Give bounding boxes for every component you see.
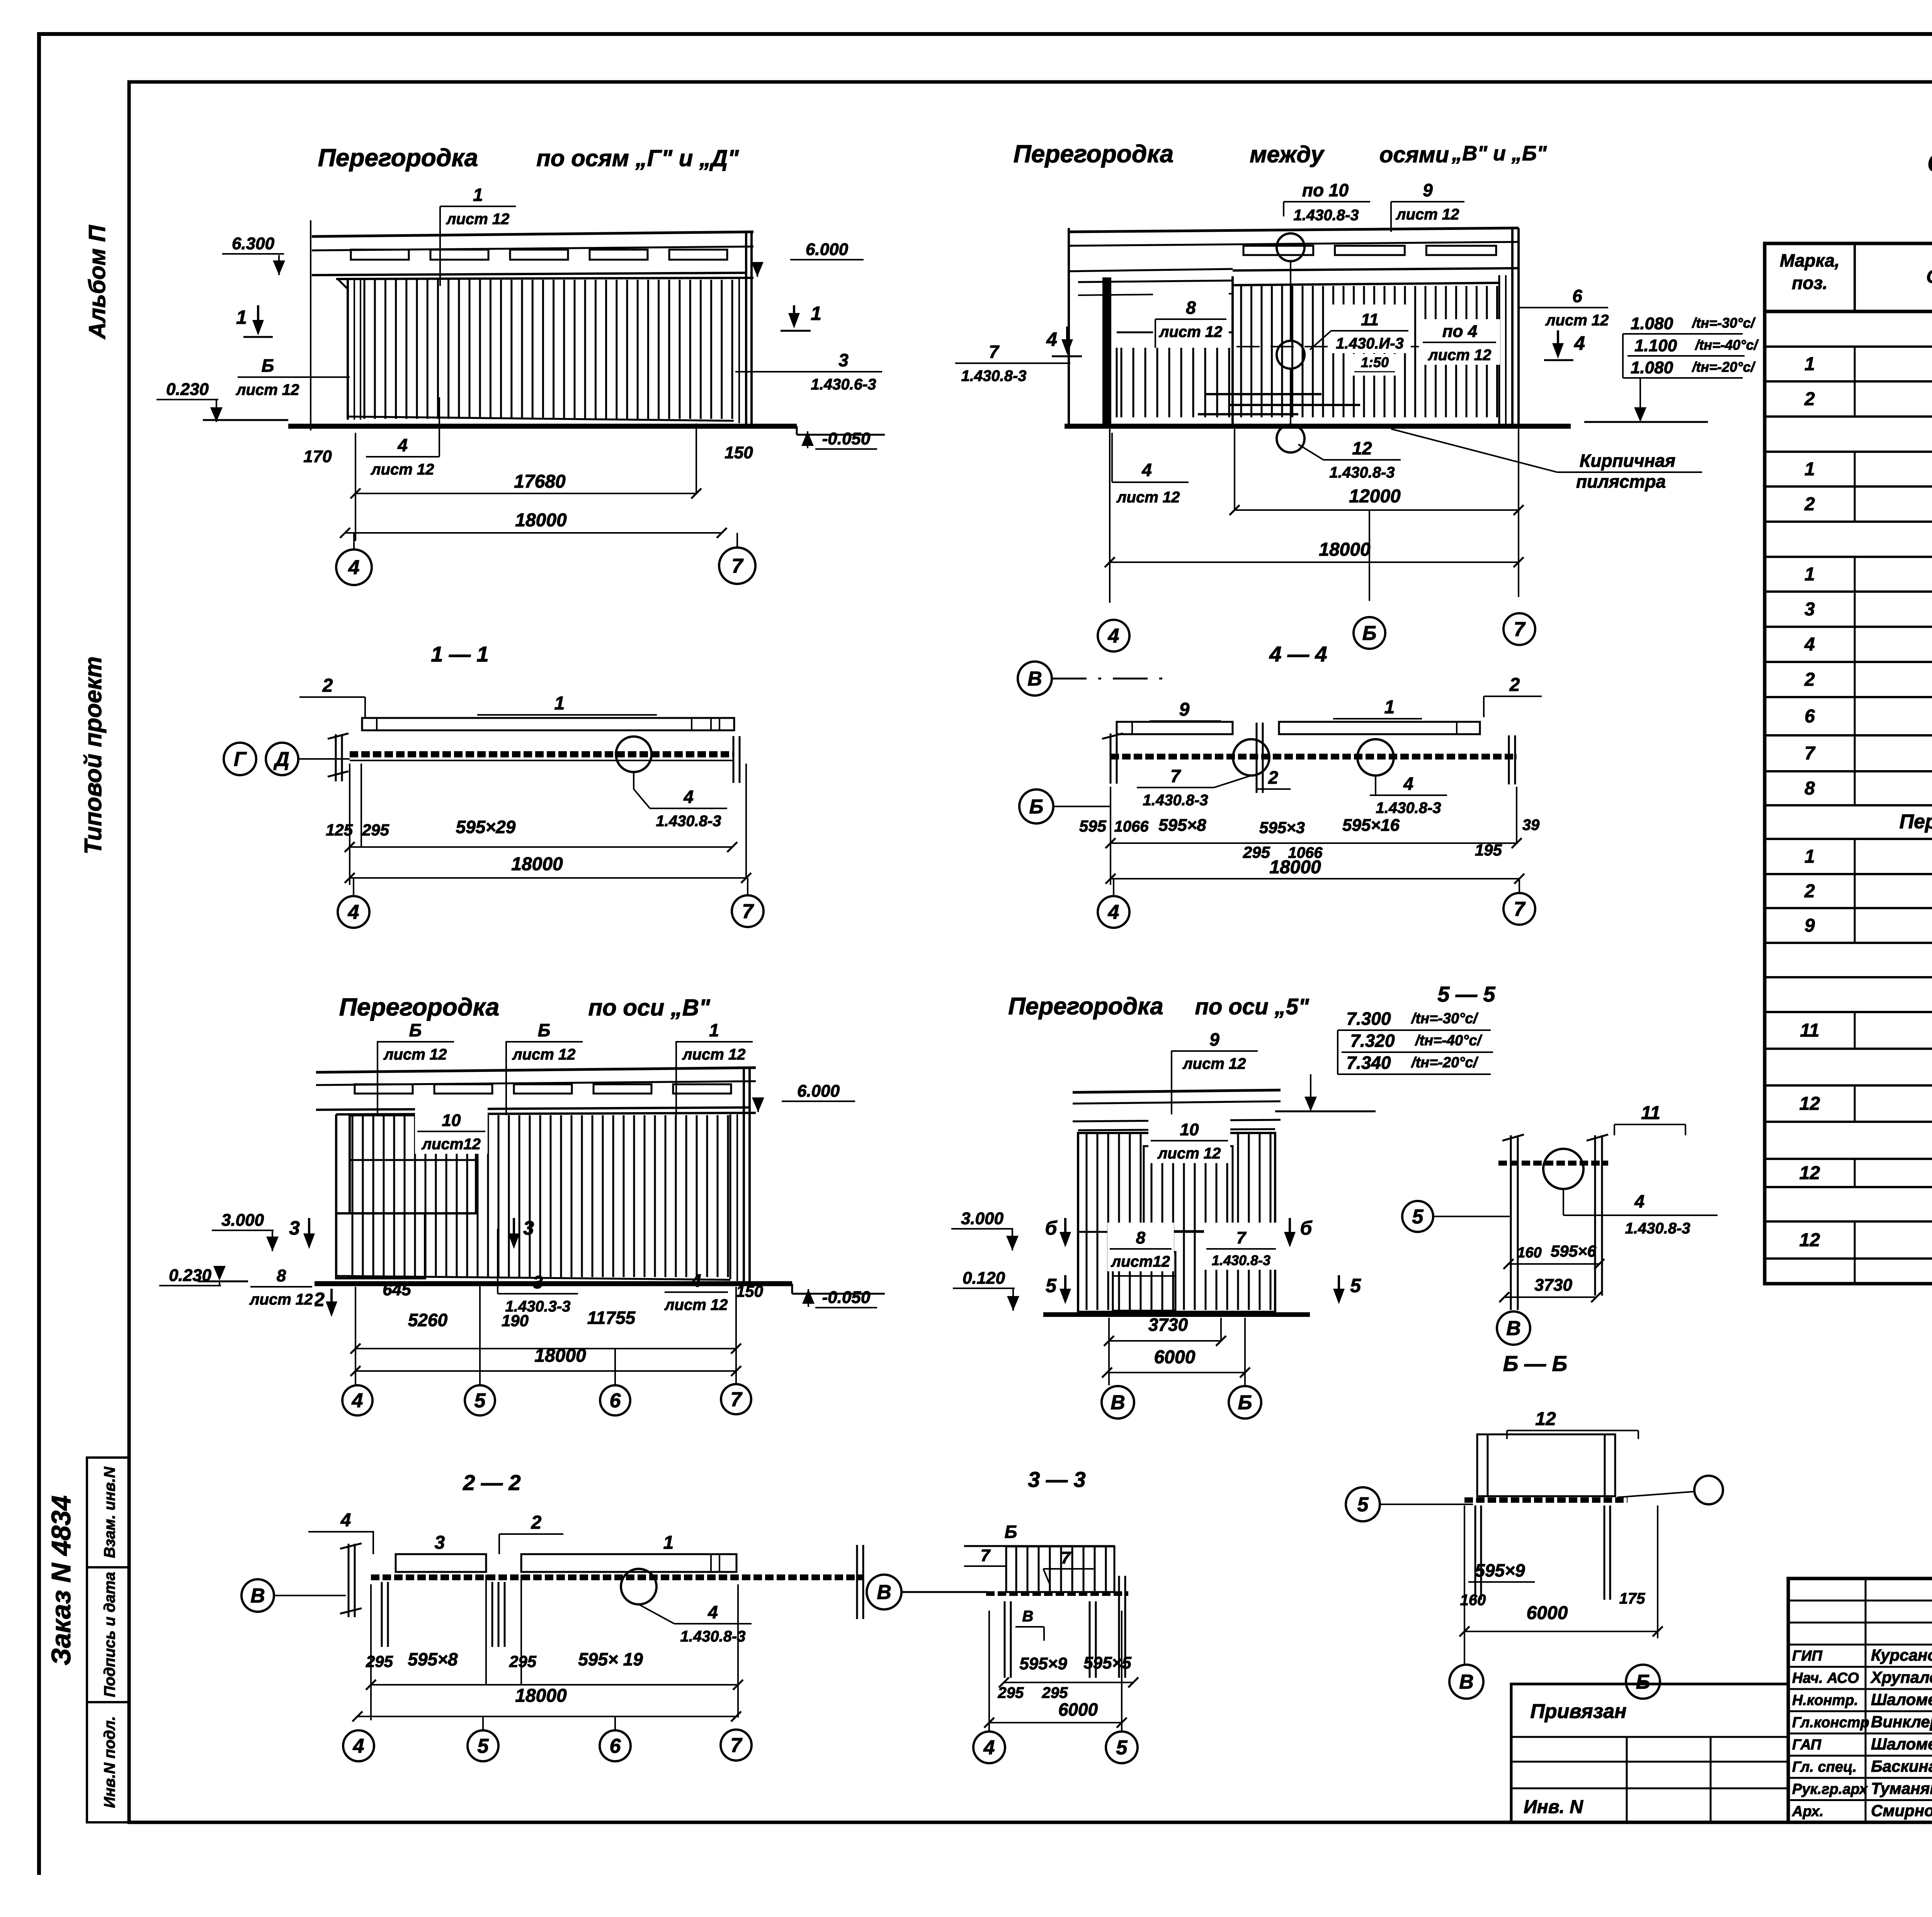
svg-text:12: 12 (1352, 438, 1372, 458)
svg-text:1.430.8-3: 1.430.8-3 (680, 1628, 745, 1645)
svg-text:595×16: 595×16 (1342, 816, 1400, 835)
svg-text:18000: 18000 (1269, 857, 1321, 878)
svg-text:1: 1 (236, 306, 247, 328)
D3 left end cap (335, 734, 337, 781)
svg-text:295: 295 (1042, 1684, 1068, 1701)
svg-text:6000: 6000 (1154, 1347, 1196, 1368)
svg-text:Спецификация: Спецификация (1927, 148, 1932, 178)
svg-text:8: 8 (1186, 298, 1196, 318)
svg-text:лист 12: лист 12 (446, 211, 510, 228)
D7 callout circle (621, 1569, 656, 1604)
svg-text:595×6: 595×6 (1551, 1242, 1597, 1260)
svg-text:595×5: 595×5 (1083, 1653, 1131, 1672)
D6 inner rect 8 (1113, 1252, 1175, 1311)
svg-text:0.230: 0.230 (169, 1266, 212, 1285)
svg-text:Туманян: Туманян (1871, 1779, 1932, 1797)
D5 panel bottom (336, 1276, 730, 1280)
svg-text:1.430.6-3: 1.430.6-3 (811, 376, 876, 393)
D7 panel 1 (521, 1554, 736, 1572)
svg-text:2: 2 (1804, 389, 1815, 410)
svg-text:Альбом П: Альбом П (84, 225, 110, 340)
D5 axis circles 4 5 6 7 (342, 1385, 372, 1415)
svg-text:7: 7 (742, 900, 754, 923)
svg-text:Арх.: Арх. (1792, 1803, 1823, 1820)
svg-text:Б: Б (1238, 1391, 1252, 1414)
svg-text:2: 2 (322, 675, 333, 696)
svg-text:7: 7 (1514, 898, 1526, 920)
svg-text:7: 7 (989, 342, 1000, 362)
svg-text:лист 12: лист 12 (1157, 1145, 1221, 1162)
D6 inner rect 10 (1144, 1146, 1233, 1231)
svg-text:3: 3 (838, 350, 849, 370)
svg-text:9: 9 (1209, 1029, 1219, 1050)
svg-text:6.000: 6.000 (797, 1082, 840, 1101)
D1 ground left extension (203, 419, 288, 421)
D1 ground line (288, 424, 797, 429)
D2 ground speckle (1206, 393, 1321, 395)
svg-text:Подпись и дата: Подпись и дата (101, 1572, 118, 1697)
svg-text:лист 12: лист 12 (1428, 347, 1492, 364)
svg-text:3730: 3730 (1534, 1276, 1572, 1294)
svg-text:Б: Б (1005, 1522, 1017, 1542)
svg-text:1.430.8-3: 1.430.8-3 (1293, 207, 1359, 224)
outer border top (37, 32, 1932, 36)
D4 wall band (1111, 754, 1517, 760)
svg-text:лист 12: лист 12 (371, 461, 434, 478)
svg-text:7: 7 (1170, 766, 1181, 786)
svg-text:595×9: 595×9 (1475, 1560, 1525, 1580)
svg-text:1.430.8-3: 1.430.8-3 (1625, 1220, 1690, 1237)
svg-text:1: 1 (1804, 564, 1815, 585)
D7 left end cap (348, 1544, 350, 1617)
svg-text:595×8: 595×8 (408, 1649, 458, 1669)
title block outline (1788, 1579, 1932, 1822)
D3 panel bar (362, 718, 734, 730)
svg-text:5: 5 (1350, 1275, 1361, 1296)
5-5 wall columns (1510, 1135, 1512, 1310)
D2 dark column (1102, 277, 1111, 424)
D8 below columns (1004, 1601, 1006, 1678)
svg-text:4: 4 (348, 901, 359, 924)
svg-text:/tн=-20°с/: /tн=-20°с/ (1691, 359, 1756, 375)
svg-text:11: 11 (1800, 1021, 1820, 1041)
svg-text:5: 5 (1412, 1206, 1424, 1228)
svg-text:Д: Д (273, 748, 289, 771)
svg-text:6: 6 (610, 1390, 621, 1412)
svg-text:5: 5 (1357, 1493, 1369, 1516)
svg-text:1.080: 1.080 (1631, 358, 1673, 377)
svg-text:3 — 3: 3 — 3 (1028, 1467, 1085, 1492)
svg-text:/tн=-40°с/: /tн=-40°с/ (1415, 1032, 1483, 1049)
D2 axis circle 4 (1098, 620, 1129, 651)
D4 right end cap (1508, 735, 1510, 784)
D5 panel hatch (352, 1115, 354, 1277)
svg-text:В: В (1459, 1671, 1474, 1693)
D6 leader 8 / лист12 (1107, 1223, 1174, 1271)
svg-text:1.100: 1.100 (1634, 336, 1677, 355)
svg-text:Перегородка между осями„В"и„Б: Перегородка между осями„В"и„Б"/tн=-20°;-… (1900, 811, 1932, 833)
svg-text:Обозначение: Обозначение (1926, 267, 1932, 287)
svg-text:12: 12 (1799, 1094, 1820, 1114)
svg-text:1: 1 (1804, 847, 1815, 867)
svg-text:4: 4 (683, 787, 694, 807)
D2 axis circle 7 (1503, 613, 1535, 645)
svg-text:0.230: 0.230 (166, 380, 209, 399)
svg-text:Перегородка: Перегородка (339, 993, 500, 1021)
D3 axis circle 4 (353, 878, 354, 896)
svg-text:-0.050: -0.050 (822, 429, 871, 448)
svg-text:1.080: 1.080 (1631, 314, 1673, 333)
svg-text:7: 7 (1804, 743, 1816, 764)
svg-text:по 4: по 4 (1442, 322, 1477, 341)
svg-text:лист12: лист12 (1111, 1253, 1170, 1270)
D1 panel top (336, 278, 753, 279)
svg-text:осями: осями (1379, 142, 1449, 167)
svg-text:12: 12 (1535, 1409, 1556, 1429)
svg-text:Гл. спец.: Гл. спец. (1792, 1759, 1857, 1775)
D2 mid dashed line (1236, 346, 1498, 347)
svg-text:5: 5 (1116, 1737, 1128, 1759)
svg-text:В: В (1022, 1608, 1034, 1625)
svg-text:18000: 18000 (511, 854, 563, 874)
D1 section mark 1 left (257, 305, 259, 324)
D1 roof band (312, 232, 753, 236)
D5 right columns (730, 1114, 731, 1279)
svg-text:4: 4 (691, 1271, 701, 1291)
svg-text:1: 1 (709, 1020, 719, 1040)
D4 left end cap (1110, 733, 1112, 784)
D5 left edge (335, 1114, 337, 1278)
svg-text:7: 7 (981, 1546, 991, 1565)
svg-text:лист 12: лист 12 (1396, 206, 1459, 223)
svg-text:295: 295 (362, 821, 389, 839)
svg-text:3.000: 3.000 (221, 1211, 264, 1230)
svg-text:1: 1 (473, 185, 483, 205)
svg-text:8: 8 (1804, 778, 1815, 799)
privyazan table (1511, 1684, 1788, 1822)
svg-text:1.430.8-3: 1.430.8-3 (1376, 799, 1441, 816)
title block left columns (1865, 1579, 1867, 1822)
svg-text:/tн=-30°с/: /tн=-30°с/ (1411, 1010, 1479, 1027)
D4 panel 1 (1279, 722, 1480, 734)
D7 below columns (381, 1582, 383, 1647)
svg-text:1: 1 (663, 1533, 674, 1553)
svg-text:8: 8 (277, 1266, 286, 1285)
svg-text:175: 175 (1619, 1590, 1645, 1607)
D3 axis circle 7 (747, 878, 748, 896)
table rows (1765, 345, 1932, 348)
svg-text:295: 295 (1243, 843, 1270, 861)
svg-text:6000: 6000 (1527, 1603, 1568, 1623)
D5 leader 8 / лист 12 (248, 1260, 315, 1309)
svg-text:1:50: 1:50 (1361, 354, 1389, 370)
svg-text:Рук.гр.арх: Рук.гр.арх (1792, 1781, 1868, 1797)
svg-text:В: В (1027, 668, 1042, 690)
svg-text:2: 2 (1804, 494, 1815, 515)
svg-text:4: 4 (1046, 328, 1057, 350)
svg-text:645: 645 (383, 1280, 411, 1299)
svg-text:Нач. АСО: Нач. АСО (1792, 1670, 1859, 1686)
title block name rows (1788, 1666, 1932, 1668)
svg-text:Перегородка: Перегородка (1008, 993, 1163, 1020)
svg-text:7: 7 (1061, 1548, 1071, 1567)
D4 axis circle 4 (1113, 879, 1114, 896)
svg-text:Взам. инв.N: Взам. инв.N (101, 1466, 118, 1558)
D7 axis circles 4 5 6 7 (343, 1730, 374, 1761)
svg-text:„В" и „Б": „В" и „Б" (1451, 142, 1547, 165)
svg-text:9: 9 (1179, 699, 1190, 720)
svg-text:б: б (1300, 1217, 1313, 1239)
D5 ground left extension (198, 1281, 286, 1283)
svg-text:39: 39 (1522, 816, 1540, 833)
svg-text:190: 190 (502, 1311, 529, 1330)
svg-text:17680: 17680 (514, 471, 566, 492)
D8 axis circle В (867, 1575, 901, 1609)
D8 panel (1006, 1546, 1114, 1592)
svg-text:лист 12: лист 12 (1116, 489, 1180, 506)
Б-Б wall band (1464, 1497, 1628, 1503)
svg-text:Марка,: Марка, (1780, 250, 1840, 270)
svg-text:4: 4 (353, 1735, 364, 1757)
svg-text:7: 7 (731, 1388, 743, 1411)
D4 panel 9 (1117, 722, 1233, 734)
svg-text:150: 150 (724, 443, 753, 462)
svg-text:лист12: лист12 (421, 1136, 481, 1153)
svg-text:Перегородка: Перегородка (1014, 140, 1174, 168)
svg-text:лист 12: лист 12 (682, 1046, 746, 1063)
D3 wall band (350, 751, 734, 757)
svg-text:1.430.8-3: 1.430.8-3 (1329, 464, 1395, 481)
D1 axis circle 7 (736, 533, 738, 548)
svg-text:по оси „5": по оси „5" (1195, 994, 1310, 1019)
svg-text:между: между (1250, 141, 1325, 167)
D3 axis circles Г Д (224, 743, 256, 775)
D8 axis circles 4 5 (973, 1732, 1005, 1763)
5-5 callout circle (1543, 1149, 1583, 1189)
svg-text:5260: 5260 (408, 1310, 448, 1330)
D2 scale 1:50 (1350, 354, 1399, 376)
svg-text:3: 3 (533, 1272, 543, 1292)
D1 right column (738, 279, 740, 423)
svg-text:Перегородка: Перегородка (318, 144, 478, 172)
svg-text:0.120: 0.120 (963, 1269, 1005, 1288)
svg-text:1: 1 (811, 303, 821, 324)
svg-text:4: 4 (348, 556, 360, 579)
D3 right end cap (733, 736, 735, 783)
svg-text:4: 4 (1403, 774, 1413, 794)
svg-text:5: 5 (1046, 1275, 1057, 1296)
svg-text:Хрупало: Хрупало (1870, 1668, 1932, 1686)
svg-text:7: 7 (1236, 1228, 1247, 1247)
svg-text:12: 12 (1799, 1230, 1820, 1250)
svg-text:1.430.8-3: 1.430.8-3 (1143, 792, 1208, 809)
svg-text:2: 2 (1509, 675, 1520, 695)
title block left thin rows (1788, 1600, 1932, 1602)
svg-text:Б: Б (409, 1020, 422, 1040)
svg-text:Б: Б (262, 356, 274, 376)
svg-text:Баскина: Баскина (1871, 1757, 1932, 1775)
svg-text:1: 1 (554, 693, 565, 714)
svg-text:6: 6 (1572, 286, 1582, 306)
svg-text:В: В (1111, 1391, 1125, 1414)
svg-text:ГИП: ГИП (1792, 1648, 1823, 1664)
D2 right panel (1231, 276, 1234, 424)
svg-text:Кирпичная: Кирпичная (1580, 451, 1675, 471)
table outline (1765, 243, 1932, 1284)
D7 right end cap (856, 1545, 858, 1619)
svg-text:5 — 5: 5 — 5 (1437, 982, 1495, 1006)
svg-text:595×8: 595×8 (1158, 816, 1206, 835)
svg-text:6: 6 (610, 1735, 621, 1757)
svg-text:6: 6 (1804, 706, 1815, 727)
D6 leader 7 / 1.430.8-3 (1204, 1223, 1278, 1270)
D1 panel bottom (348, 417, 734, 421)
svg-text:лист 12: лист 12 (236, 381, 299, 398)
svg-text:лист 12: лист 12 (383, 1046, 447, 1063)
D5 panel top (336, 1113, 756, 1114)
D4 callout circles (1233, 739, 1269, 776)
5-5 axis circle В below (1497, 1311, 1530, 1345)
D4 axis circle Б (1019, 789, 1053, 823)
svg-text:11: 11 (1361, 310, 1379, 329)
D5 section mark 3 right (513, 1218, 515, 1237)
svg-text:4: 4 (340, 1510, 351, 1531)
svg-text:Гл.констр: Гл.констр (1792, 1715, 1869, 1731)
svg-text:6.300: 6.300 (232, 234, 275, 253)
svg-text:18000: 18000 (515, 1686, 567, 1706)
svg-text:160: 160 (1517, 1245, 1541, 1261)
svg-text:1.430.8-3: 1.430.8-3 (656, 813, 721, 830)
outer border left (37, 32, 41, 1875)
svg-text:595× 19: 595× 19 (578, 1649, 643, 1669)
svg-text:150: 150 (736, 1282, 763, 1300)
svg-text:лист 12: лист 12 (512, 1046, 576, 1063)
svg-text:595: 595 (1079, 817, 1107, 835)
D6 ground line (1043, 1312, 1310, 1317)
svg-text:1066: 1066 (1114, 818, 1149, 835)
D5 roof band (316, 1068, 756, 1072)
svg-text:В: В (250, 1585, 265, 1607)
svg-text:3.000: 3.000 (961, 1209, 1004, 1228)
5-5 axis circle 5 (1402, 1201, 1433, 1232)
svg-text:Б: Б (1636, 1671, 1650, 1693)
svg-text:Винклер: Винклер (1871, 1713, 1932, 1731)
svg-text:2: 2 (1804, 881, 1815, 902)
svg-text:1: 1 (1384, 697, 1395, 718)
D2 right edge columns (1498, 275, 1500, 424)
svg-text:11: 11 (1641, 1103, 1660, 1123)
svg-text:5: 5 (478, 1735, 489, 1757)
svg-text:лист 12: лист 12 (1182, 1055, 1246, 1072)
Б-Б callout circle (1694, 1476, 1723, 1504)
svg-text:2: 2 (313, 1289, 325, 1310)
svg-text:Б — Б: Б — Б (1503, 1351, 1567, 1376)
svg-text:170: 170 (303, 447, 332, 466)
D2 left sub-panel hatch (1117, 332, 1233, 333)
svg-text:Типовой проект: Типовой проект (80, 657, 107, 855)
svg-text:по осям „Г" и „Д": по осям „Г" и „Д" (536, 145, 739, 171)
svg-text:Б: Б (538, 1020, 551, 1040)
svg-text:лист 12: лист 12 (249, 1291, 313, 1308)
D2 callout circles (1277, 233, 1304, 261)
svg-text:по 10: по 10 (1302, 180, 1349, 200)
D1 axis circle 4 (353, 533, 355, 549)
svg-text:2: 2 (531, 1512, 542, 1533)
svg-text:11755: 11755 (587, 1308, 636, 1328)
svg-text:4: 4 (352, 1390, 363, 1412)
svg-text:8: 8 (1136, 1228, 1146, 1247)
D7 panel 3 (396, 1554, 486, 1572)
svg-text:Привязан: Привязан (1530, 1700, 1626, 1723)
svg-text:18000: 18000 (1319, 539, 1371, 560)
D2 leader по 4 / лист 12 (1419, 319, 1500, 365)
svg-text:В: В (1506, 1317, 1521, 1340)
D5 ground line (286, 1281, 792, 1286)
svg-text:-0.050: -0.050 (822, 1288, 871, 1307)
svg-text:Шаломеев: Шаломеев (1871, 1735, 1932, 1753)
D5 leader 10 / лист 12 (415, 1105, 488, 1154)
svg-text:Шаломеев: Шаломеев (1871, 1690, 1932, 1708)
svg-text:4: 4 (1574, 332, 1585, 354)
D7 wall band (371, 1575, 862, 1580)
svg-text:Б: Б (1362, 622, 1377, 645)
svg-text:12000: 12000 (1349, 486, 1401, 507)
D4 axis circle 7 (1519, 879, 1520, 893)
D2 leader 8 / лист 12 (1153, 292, 1229, 342)
svg-text:Инв.N подл.: Инв.N подл. (101, 1716, 118, 1808)
svg-text:поз.: поз. (1792, 273, 1827, 293)
svg-text:295: 295 (509, 1652, 537, 1670)
D6 roof band (1073, 1090, 1281, 1092)
svg-text:/tн=-40°с/: /tн=-40°с/ (1694, 337, 1759, 353)
Б-Б panel (1477, 1434, 1615, 1496)
svg-text:6000: 6000 (1058, 1699, 1098, 1720)
svg-text:9: 9 (1804, 915, 1815, 936)
svg-text:4: 4 (1108, 625, 1119, 647)
svg-text:2 — 2: 2 — 2 (463, 1470, 520, 1495)
D1 left extension line (310, 220, 311, 430)
D2 roof band (1069, 228, 1519, 232)
D5 section mark 2 left (330, 1289, 333, 1305)
svg-text:4: 4 (397, 435, 408, 455)
svg-text:4 — 4: 4 — 4 (1269, 642, 1327, 666)
svg-text:3: 3 (523, 1217, 534, 1239)
svg-text:4: 4 (1634, 1191, 1645, 1211)
svg-text:3: 3 (289, 1217, 300, 1239)
svg-text:1: 1 (1804, 354, 1815, 374)
svg-text:/tн=-30°с/: /tн=-30°с/ (1691, 315, 1756, 331)
svg-text:295: 295 (366, 1652, 393, 1670)
svg-text:12: 12 (1799, 1163, 1820, 1184)
svg-text:7.340: 7.340 (1346, 1053, 1391, 1073)
svg-text:Смирнова: Смирнова (1871, 1801, 1932, 1820)
svg-text:4: 4 (983, 1737, 995, 1759)
svg-text:3: 3 (435, 1533, 445, 1553)
svg-text:В: В (877, 1581, 891, 1604)
svg-text:2: 2 (1268, 767, 1278, 788)
svg-text:195: 195 (1475, 841, 1502, 859)
svg-text:Инв. N: Инв. N (1524, 1797, 1583, 1817)
svg-text:595×29: 595×29 (456, 817, 516, 837)
svg-text:/tн=-20°с/: /tн=-20°с/ (1411, 1055, 1479, 1071)
svg-text:1.430.8-3: 1.430.8-3 (961, 367, 1026, 384)
svg-text:4: 4 (1141, 460, 1152, 480)
svg-text:18000: 18000 (515, 510, 567, 531)
svg-text:7.320: 7.320 (1350, 1031, 1395, 1051)
D2 ground line (1065, 424, 1571, 429)
D6 panel (1078, 1133, 1275, 1312)
svg-text:4: 4 (707, 1602, 718, 1622)
